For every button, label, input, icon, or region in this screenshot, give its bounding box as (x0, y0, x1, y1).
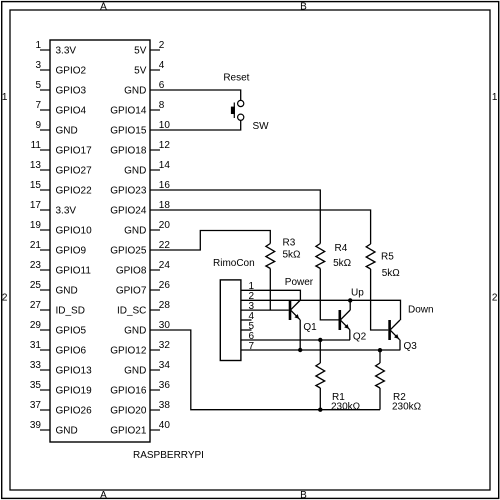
svg-text:39: 39 (30, 420, 42, 431)
svg-text:GPIO15: GPIO15 (110, 126, 147, 137)
svg-text:GPIO11: GPIO11 (56, 266, 92, 277)
svg-text:29: 29 (30, 320, 42, 331)
svg-text:GPIO19: GPIO19 (56, 386, 93, 397)
svg-text:RASPBERRYPI: RASPBERRYPI (133, 450, 204, 461)
svg-text:Reset: Reset (223, 72, 249, 83)
svg-text:GPIO26: GPIO26 (56, 406, 93, 417)
svg-text:GPIO14: GPIO14 (110, 106, 147, 117)
svg-text:2: 2 (159, 40, 165, 51)
svg-text:27: 27 (30, 300, 42, 311)
svg-text:GPIO6: GPIO6 (56, 346, 87, 357)
svg-text:GPIO27: GPIO27 (56, 166, 93, 177)
svg-text:B: B (300, 490, 307, 500)
svg-text:1: 1 (2, 92, 8, 103)
svg-text:RimoCon: RimoCon (213, 258, 255, 269)
svg-text:230kΩ: 230kΩ (331, 401, 361, 412)
svg-text:9: 9 (35, 120, 41, 131)
svg-text:4: 4 (159, 60, 165, 71)
svg-text:3.3V: 3.3V (56, 46, 77, 57)
svg-text:5kΩ: 5kΩ (382, 268, 401, 279)
svg-text:1: 1 (35, 40, 41, 51)
svg-text:40: 40 (159, 420, 171, 431)
svg-text:GPIO17: GPIO17 (56, 146, 93, 157)
svg-text:R3: R3 (283, 238, 296, 249)
svg-text:34: 34 (159, 360, 171, 371)
svg-text:230kΩ: 230kΩ (392, 401, 422, 412)
svg-text:35: 35 (30, 380, 42, 391)
svg-text:GND: GND (124, 166, 146, 177)
svg-text:20: 20 (159, 220, 171, 231)
svg-text:GPIO22: GPIO22 (56, 186, 93, 197)
svg-text:12: 12 (159, 140, 171, 151)
svg-text:GND: GND (56, 426, 78, 437)
svg-text:31: 31 (30, 340, 42, 351)
svg-text:17: 17 (30, 200, 42, 211)
svg-text:GND: GND (124, 86, 146, 97)
svg-text:15: 15 (30, 180, 42, 191)
svg-text:GND: GND (56, 126, 78, 137)
svg-text:R4: R4 (335, 243, 348, 254)
svg-text:37: 37 (30, 400, 42, 411)
svg-text:GPIO2: GPIO2 (56, 66, 87, 77)
svg-text:21: 21 (30, 240, 42, 251)
svg-text:5kΩ: 5kΩ (333, 258, 352, 269)
svg-text:R5: R5 (381, 252, 394, 263)
svg-text:2: 2 (2, 292, 8, 303)
svg-text:GND: GND (124, 366, 146, 377)
svg-text:GPIO18: GPIO18 (110, 146, 147, 157)
svg-text:SW: SW (253, 121, 270, 132)
svg-text:5: 5 (35, 80, 41, 91)
svg-text:ID_SC: ID_SC (117, 306, 146, 317)
svg-text:8: 8 (159, 100, 165, 111)
svg-text:GND: GND (124, 326, 146, 337)
svg-text:11: 11 (31, 140, 42, 151)
svg-text:GPIO7: GPIO7 (116, 286, 147, 297)
svg-text:33: 33 (30, 360, 42, 371)
svg-text:GPIO5: GPIO5 (56, 326, 87, 337)
svg-text:32: 32 (159, 340, 171, 351)
svg-text:1: 1 (492, 92, 498, 103)
svg-text:Q2: Q2 (353, 331, 367, 342)
svg-text:GPIO24: GPIO24 (110, 206, 147, 217)
svg-text:Down: Down (408, 305, 434, 316)
svg-text:GPIO3: GPIO3 (56, 86, 87, 97)
svg-text:Q3: Q3 (404, 341, 418, 352)
svg-text:36: 36 (159, 380, 171, 391)
svg-text:25: 25 (30, 280, 42, 291)
svg-text:A: A (100, 490, 107, 500)
svg-text:A: A (100, 1, 107, 12)
svg-text:38: 38 (159, 400, 171, 411)
svg-text:Power: Power (285, 277, 314, 288)
svg-text:23: 23 (30, 260, 42, 271)
svg-text:GPIO23: GPIO23 (110, 186, 147, 197)
svg-text:ID_SD: ID_SD (56, 306, 85, 317)
svg-text:28: 28 (159, 300, 171, 311)
svg-text:GPIO10: GPIO10 (56, 226, 93, 237)
svg-text:GND: GND (124, 226, 146, 237)
svg-text:GPIO12: GPIO12 (110, 346, 147, 357)
svg-text:Q1: Q1 (303, 322, 317, 333)
svg-text:Up: Up (351, 287, 364, 298)
svg-text:B: B (300, 1, 307, 12)
svg-text:26: 26 (159, 280, 171, 291)
svg-text:13: 13 (30, 160, 42, 171)
svg-text:GPIO9: GPIO9 (56, 246, 87, 257)
svg-text:GPIO21: GPIO21 (110, 426, 147, 437)
svg-text:GPIO13: GPIO13 (56, 366, 93, 377)
svg-text:GND: GND (56, 286, 78, 297)
svg-text:24: 24 (159, 260, 171, 271)
svg-text:GPIO8: GPIO8 (116, 266, 147, 277)
svg-text:GPIO16: GPIO16 (110, 386, 147, 397)
svg-text:GPIO25: GPIO25 (110, 246, 147, 257)
svg-text:GPIO20: GPIO20 (110, 406, 147, 417)
svg-text:7: 7 (35, 100, 41, 111)
svg-text:5kΩ: 5kΩ (283, 250, 302, 261)
svg-text:5V: 5V (134, 46, 147, 57)
svg-text:14: 14 (159, 160, 171, 171)
svg-text:7: 7 (249, 341, 255, 352)
svg-text:5V: 5V (134, 66, 147, 77)
svg-text:3: 3 (35, 60, 41, 71)
svg-text:GPIO4: GPIO4 (56, 106, 87, 117)
svg-text:19: 19 (30, 220, 42, 231)
svg-text:3.3V: 3.3V (56, 206, 77, 217)
svg-text:2: 2 (492, 292, 498, 303)
